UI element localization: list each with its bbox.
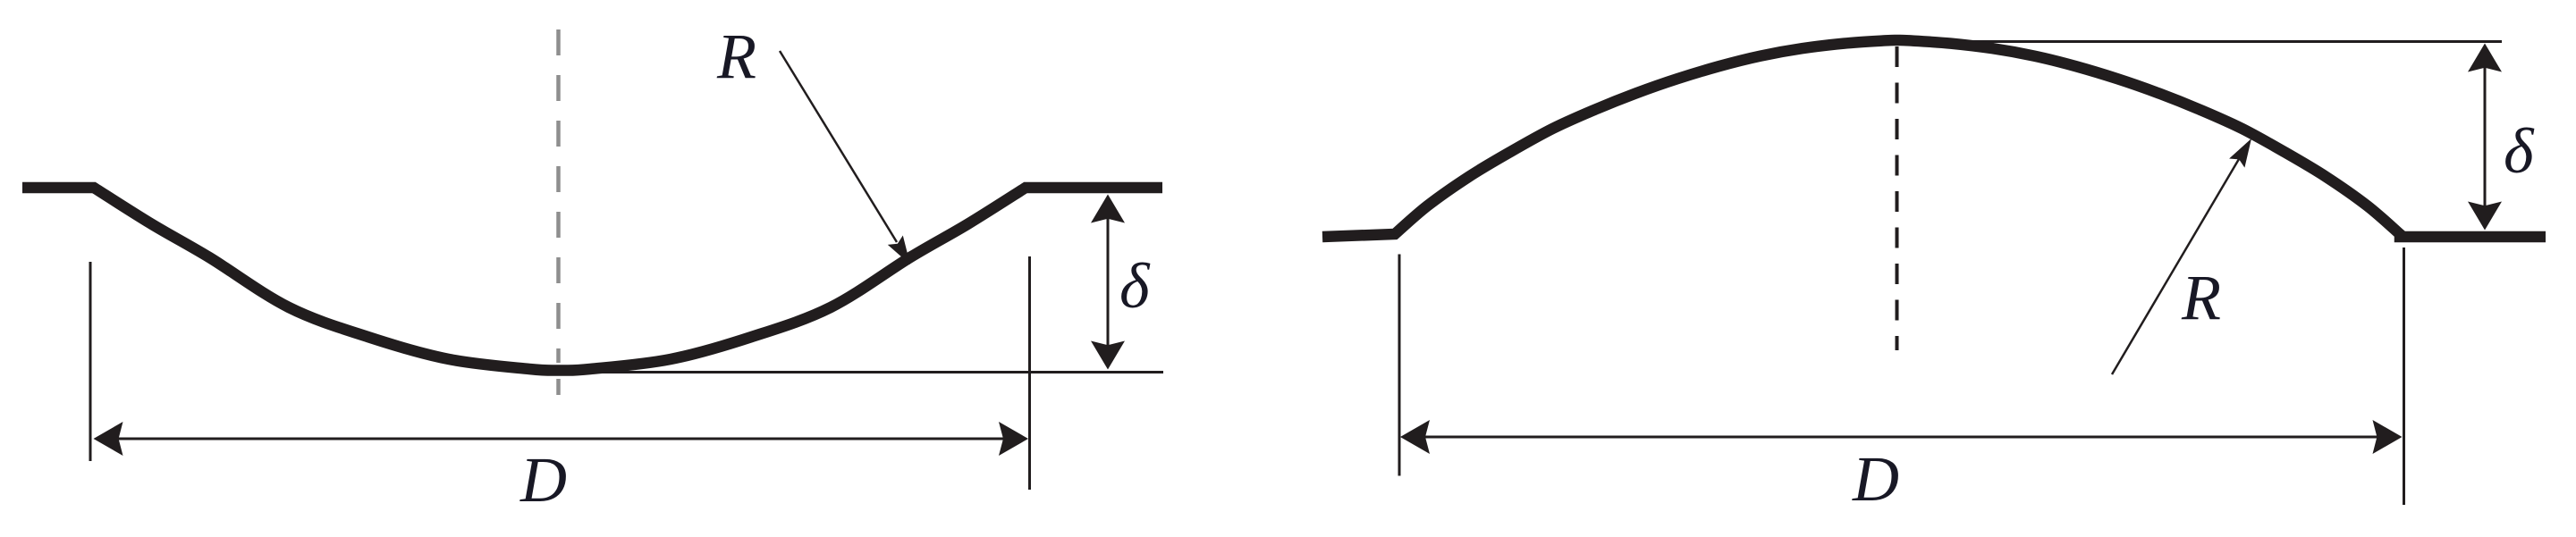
svg-text:D: D [519,444,567,516]
svg-text:R: R [2181,262,2221,333]
svg-text:δ: δ [2504,115,2535,187]
svg-text:δ: δ [1119,250,1151,322]
svg-text:R: R [716,21,756,92]
svg-text:D: D [1852,443,1899,515]
